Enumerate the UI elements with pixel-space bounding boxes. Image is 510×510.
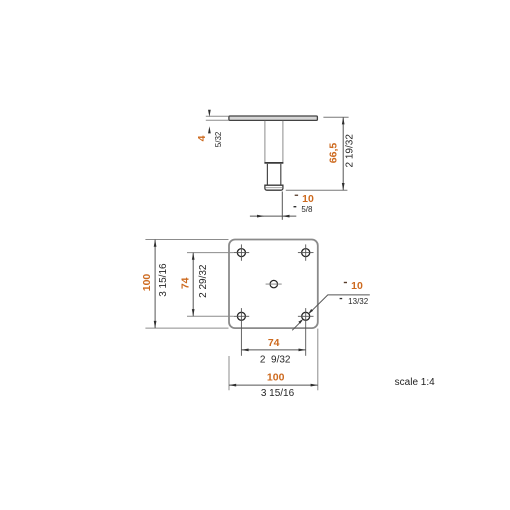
arrow thickness top [208, 110, 211, 117]
arrow thickness bottom [208, 126, 211, 133]
extension lines 74 left [187, 253, 233, 317]
center hole [266, 280, 282, 287]
svg-text:2 29/32: 2 29/32 [198, 264, 209, 298]
hole bottom-right [298, 308, 314, 356]
label 100 bottom (mm) [267, 371, 285, 383]
plate (side view) [229, 116, 318, 120]
collar foot [265, 185, 283, 190]
extension lines 100 bottom [229, 329, 318, 391]
label 100 left (mm) [141, 274, 153, 292]
label 2 9/32 bottom (inch) [260, 355, 291, 366]
dimension line 74 left [192, 253, 195, 317]
label dia 13/32 leader (inch) [340, 297, 369, 306]
label dia 10 leader (mm) [344, 280, 363, 292]
tube shoulder [264, 162, 283, 164]
svg-text:74: 74 [268, 337, 280, 349]
svg-text:74: 74 [179, 277, 191, 289]
hole bottom-left [234, 308, 250, 356]
svg-text:10: 10 [351, 280, 363, 292]
svg-text:5/8: 5/8 [301, 205, 313, 214]
leader line hole diameter [292, 295, 370, 330]
dimension line 66.5 [342, 117, 345, 190]
extension line bottom (from collar) [286, 189, 348, 191]
label 66,5 (mm) [328, 143, 340, 164]
foot diameter extension line [281, 192, 283, 220]
foot diameter dimension line [250, 215, 296, 218]
label 74 left (mm) [179, 277, 191, 289]
scale note [395, 377, 435, 388]
dimension line 74 bottom [241, 349, 305, 352]
svg-text:66,5: 66,5 [328, 143, 340, 164]
svg-text:2 19/32: 2 19/32 [345, 134, 356, 168]
label 2 29/32 left (inch) [198, 264, 209, 298]
label 3 15/16 left (inch) [158, 263, 169, 297]
label 2 19/32 (inch) [345, 134, 356, 168]
label 4 (mm) [196, 135, 208, 141]
svg-text:3 15/16: 3 15/16 [158, 263, 169, 297]
extension line top right [323, 116, 348, 118]
upper tube [265, 121, 283, 163]
svg-text:2 9/32: 2 9/32 [260, 355, 291, 366]
svg-text:13/32: 13/32 [348, 297, 369, 306]
lower stem [267, 164, 280, 185]
dimension line 100 left [154, 240, 157, 329]
svg-text:10: 10 [302, 193, 314, 205]
extension lines plate thickness [206, 116, 229, 120]
hole top-left [234, 244, 250, 260]
label 74 bottom (mm) [268, 337, 280, 349]
svg-text:4: 4 [196, 135, 208, 141]
extension lines 100 left [145, 240, 228, 329]
svg-text:5/32: 5/32 [214, 131, 223, 147]
label dia 10 (mm) [295, 193, 314, 205]
svg-text:100: 100 [141, 274, 153, 292]
hole top-right [298, 244, 314, 260]
dimension line 100 bottom [229, 384, 318, 387]
label dia 5/8 (inch) [294, 205, 314, 214]
svg-text:3 15/16: 3 15/16 [261, 388, 295, 399]
svg-text:100: 100 [267, 371, 285, 383]
label 3 15/16 bottom (inch) [261, 388, 295, 399]
svg-text:scale 1:4: scale 1:4 [395, 377, 435, 388]
plate (top view) [229, 240, 318, 329]
label 5/32 (inch) [214, 131, 223, 147]
